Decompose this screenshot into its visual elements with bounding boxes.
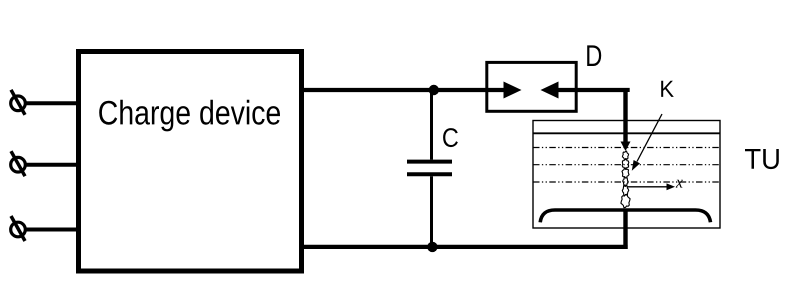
terminal X2 (phase input 2) [11, 151, 26, 176]
dash-dot level line 1 [533, 147, 720, 149]
label TU [745, 149, 779, 169]
dash-dot level line 3 [533, 181, 720, 183]
wire: terminal X1 to charge device [25, 101, 79, 105]
label: Charge device [99, 100, 280, 132]
wire: discharger to tank electrode (top right) [559, 90, 628, 92]
label C [443, 128, 458, 147]
upper electrode arrowhead [621, 142, 631, 152]
label x [676, 180, 683, 188]
capacitor C top lead [430, 90, 433, 160]
x axis arrow [628, 186, 667, 188]
terminal X3 (phase input 3) [11, 216, 26, 241]
pointer arrowhead K [632, 160, 640, 171]
node: bottom junction [427, 242, 437, 252]
node: top junction [429, 85, 439, 95]
wire: terminal X3 to charge device [25, 228, 79, 232]
discharger right arrow electrode [541, 82, 559, 99]
tank TU (technological unit vessel) [533, 121, 720, 229]
label K [661, 81, 674, 97]
wire: terminal X2 to charge device [25, 163, 79, 167]
liquid surface line [533, 132, 720, 134]
bottom electrode plate [540, 210, 710, 222]
wire: vertical drop into tank [623, 88, 627, 142]
discharger left arrow electrode [504, 82, 522, 99]
charge device block [79, 52, 302, 272]
spark channel K (bead chain) [621, 151, 630, 208]
terminal X1 (phase input 1) [11, 90, 26, 115]
wire: charge device to discharger (top bus) [301, 88, 504, 92]
capacitor C top plate [407, 160, 452, 164]
label D [587, 45, 601, 66]
discharger D box [487, 62, 576, 111]
wire: bottom return bus [301, 245, 628, 249]
pointer line for K label [637, 114, 662, 162]
wire: tank bottom electrode to return bus [623, 209, 627, 249]
dash-dot level line 2 [533, 164, 720, 166]
capacitor C bottom plate [407, 172, 452, 176]
x axis arrowhead [667, 183, 676, 190]
capacitor C bottom lead [430, 176, 433, 247]
